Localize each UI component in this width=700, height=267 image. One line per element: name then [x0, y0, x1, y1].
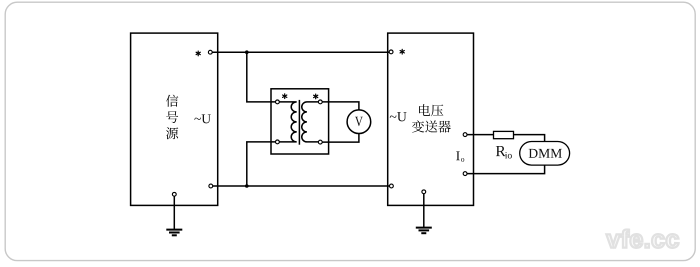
DMM label — [529, 149, 562, 158]
polarity mark transmitter — [400, 49, 404, 54]
label Io — [456, 151, 460, 160]
voltmeter V — [347, 110, 371, 134]
wire Io- to DMM bottom — [465, 165, 544, 174]
ground (signal source) — [166, 230, 182, 236]
wire junction drop to primary top — [247, 52, 278, 102]
DMM meter — [520, 142, 570, 166]
terminal signal source + — [208, 50, 212, 54]
terminal primary bottom — [276, 140, 280, 144]
terminal signal source - — [209, 184, 213, 188]
wire Io+ to resistor — [465, 134, 493, 136]
terminal secondary top — [318, 100, 322, 104]
terminal secondary bottom — [318, 140, 322, 144]
polarity mark secondary — [314, 94, 318, 99]
polarity mark signal source — [196, 51, 200, 56]
wire secondary bottom to voltmeter — [320, 134, 359, 143]
wire top bus — [210, 51, 391, 53]
label 送 — [425, 120, 437, 132]
wire secondary top to voltmeter — [320, 102, 359, 110]
terminal Io- — [463, 172, 467, 176]
label 电 — [419, 104, 430, 116]
transformer primary winding — [277, 102, 296, 142]
polarity mark primary — [283, 94, 287, 99]
junction node bottom — [245, 184, 249, 188]
terminal transmitter - — [390, 184, 394, 188]
label 源 — [166, 127, 178, 139]
terminal Io+ — [463, 133, 467, 137]
label 号 — [166, 111, 178, 123]
terminal transmitter + — [389, 50, 393, 54]
wire resistor to DMM top — [514, 135, 545, 142]
terminal signal source gnd — [172, 192, 176, 196]
terminal primary top — [276, 100, 280, 104]
transformer secondary winding — [302, 102, 321, 142]
wire bottom bus — [211, 185, 392, 187]
wire junction rise to primary bottom — [247, 142, 278, 186]
transformer core — [298, 100, 300, 145]
label 信 — [166, 95, 178, 107]
ground (transmitter) — [416, 228, 432, 234]
label 变 — [412, 120, 424, 132]
label Rio — [496, 146, 506, 156]
wire transmitter to ground — [423, 192, 425, 228]
label 压 — [431, 104, 443, 116]
label ~U (signal source) — [194, 114, 210, 123]
resistor Rio — [494, 131, 514, 138]
transformer box — [271, 89, 329, 154]
voltage transmitter box — [388, 33, 474, 205]
terminal transmitter gnd — [422, 190, 426, 194]
label ~U (transmitter input) — [390, 112, 407, 121]
signal source box — [131, 33, 218, 205]
label 器 — [438, 121, 451, 133]
wire signal source to ground — [173, 194, 175, 229]
voltmeter letter V — [355, 117, 363, 126]
junction node top — [245, 50, 249, 54]
